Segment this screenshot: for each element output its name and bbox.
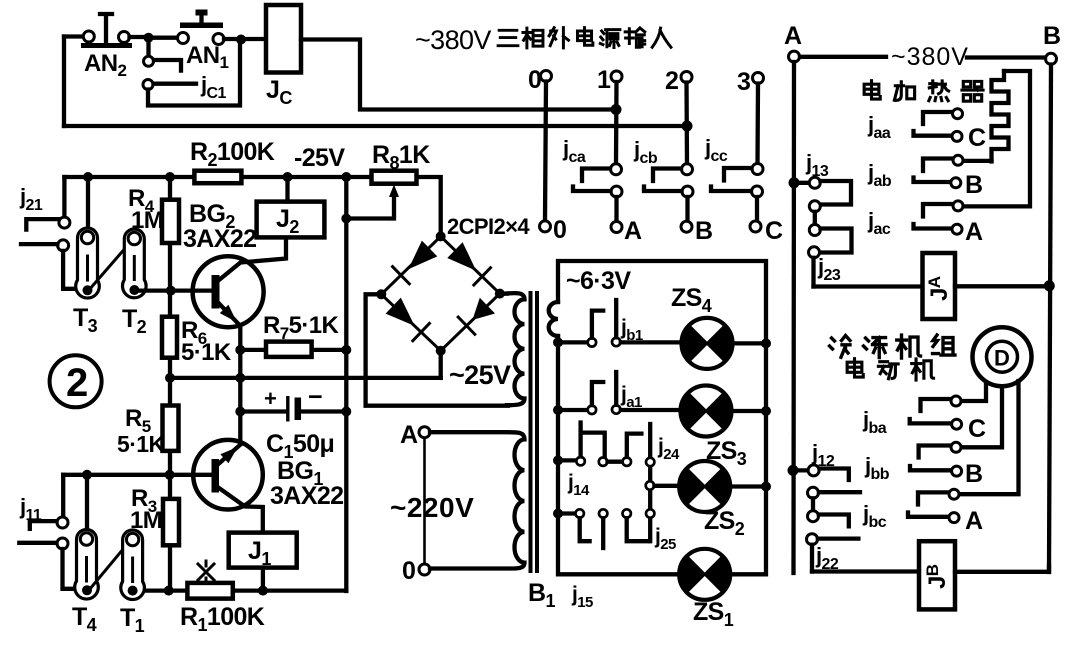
- svg-text:1M: 1M: [131, 207, 163, 234]
- contact jc1 (hold-in, parallel branch): [143, 42, 240, 106]
- wire bridge bottom node to common rail: [439, 356, 443, 378]
- node rail A on phase1: [611, 104, 622, 115]
- terminal B (right bus): [1043, 22, 1060, 64]
- svg-text:A: A: [784, 22, 802, 50]
- label ~380V: [891, 43, 969, 71]
- pushbutton AN1 (NO): [178, 10, 267, 45]
- svg-text:B: B: [695, 217, 712, 245]
- wire T4 to T1 setpoint diagonal: [90, 541, 131, 590]
- resistor R1: [187, 583, 232, 599]
- wire j22 to JB coil: [812, 569, 919, 573]
- node R7 right: [341, 345, 351, 355]
- terminal C (bottom): [750, 217, 783, 245]
- lamp ZS1: [679, 549, 730, 600]
- label C1 50u: [266, 430, 334, 462]
- label jbb: [864, 453, 890, 483]
- contact j25 (closed): [623, 509, 655, 541]
- transformer core B1: [531, 291, 538, 573]
- label jba: [862, 407, 887, 437]
- label AN2: [84, 50, 126, 80]
- contact jb1: [558, 300, 682, 347]
- label j21: [19, 184, 43, 214]
- svg-text:A: A: [624, 217, 642, 245]
- wire motor lead 2: [964, 387, 1003, 448]
- label A (heater phase): [965, 218, 983, 246]
- resistor R7: [266, 342, 312, 357]
- label ZS1: [693, 598, 734, 630]
- contact jab: [914, 155, 992, 188]
- lamp ZS3: [681, 386, 762, 437]
- svg-text:1M: 1M: [130, 507, 162, 534]
- label T1: [120, 604, 145, 636]
- contact j23: [809, 225, 852, 287]
- wire j13 to j23: [813, 212, 817, 225]
- contact ja1: [558, 372, 681, 414]
- wire bridge right node to secondary top: [505, 291, 508, 295]
- svg-text:R81K: R81K: [372, 141, 430, 173]
- label jc1: [200, 72, 226, 102]
- label B (heater phase): [965, 171, 982, 199]
- label title ~380V (three-phase external power input): [415, 25, 671, 55]
- lamp ZS4: [682, 318, 762, 369]
- wire junction to AN1: [149, 36, 178, 40]
- label j11: [19, 494, 42, 524]
- svg-text:R75·1K: R75·1K: [263, 312, 339, 343]
- node base row at T4: [82, 470, 92, 480]
- wire T3 top feed: [86, 177, 90, 231]
- node rail at -25V: [341, 172, 351, 182]
- transistor BG1: [193, 440, 263, 533]
- label R7 5.1K: [263, 312, 339, 343]
- label jbc: [862, 501, 887, 531]
- winding primary ~220V: [430, 432, 525, 568]
- terminal A (right bus): [784, 22, 802, 62]
- wire T2 to BG2 base: [139, 288, 213, 292]
- resistor R3: [163, 499, 179, 545]
- svg-text:3: 3: [737, 68, 750, 96]
- node: junction after AN2: [144, 33, 154, 43]
- wire bus A vertical: [791, 62, 796, 573]
- wire JB to bus B: [955, 566, 1049, 572]
- label ZS2: [704, 507, 745, 539]
- label A (motor phase): [965, 507, 983, 535]
- node left rail ja1: [553, 405, 563, 415]
- contact j12: [793, 465, 860, 498]
- relay coil JB: [919, 541, 955, 609]
- wire bottom row: [145, 588, 346, 592]
- wire: left vertical of start-stop loop: [62, 37, 66, 127]
- node bottom at J1: [258, 586, 268, 596]
- contact thermometer T4: [75, 530, 99, 600]
- svg-text:2: 2: [66, 361, 88, 405]
- label ~25V: [449, 360, 511, 390]
- diode D1 (top-left): [393, 241, 438, 284]
- node left rail j14: [553, 455, 563, 465]
- wire J2 top to rail: [285, 177, 289, 202]
- svg-text:~6·3V: ~6·3V: [566, 267, 631, 295]
- node emitter/R7 junction: [235, 345, 245, 355]
- node C1 left: [235, 407, 245, 417]
- label j12: [811, 440, 835, 470]
- node right rail ZS3: [761, 406, 771, 416]
- label j24: [657, 435, 680, 463]
- contact thermometer T3: [76, 228, 100, 298]
- svg-text:2: 2: [665, 67, 678, 95]
- node base row at R4 rail: [166, 286, 176, 296]
- label electric heater (dian jia re qi): [864, 81, 983, 101]
- label j25: [654, 525, 676, 553]
- diode D3 (bottom-left): [386, 298, 430, 341]
- wire R8 wiper arm: [346, 185, 399, 219]
- transistor BG2: [193, 237, 286, 327]
- node bridge bottom: [436, 346, 446, 356]
- wire R7 row: [240, 348, 346, 352]
- contact j22: [807, 511, 859, 572]
- node bridge top: [436, 231, 446, 241]
- svg-text:3AX22: 3AX22: [270, 482, 343, 510]
- wire BG2 emitter drop: [238, 325, 242, 444]
- svg-text:+: +: [264, 386, 276, 411]
- contact jca: [573, 164, 622, 222]
- label ~220V: [390, 492, 474, 523]
- wire JA to bus B: [955, 284, 1049, 288]
- wire neutral 0 vertical: [545, 82, 546, 222]
- contact j15 (open): [558, 509, 607, 548]
- svg-text:~380V: ~380V: [891, 43, 969, 71]
- node rail emitter column: [235, 373, 245, 383]
- node bridge left: [376, 289, 386, 299]
- resistor R5: [163, 406, 179, 451]
- label j23: [817, 254, 841, 284]
- terminal 0 (top): [528, 66, 552, 94]
- label AN1: [186, 42, 228, 72]
- node right rail ZS4: [761, 338, 771, 348]
- label B1: [528, 579, 555, 611]
- svg-text:1: 1: [597, 66, 611, 94]
- lamp circuit box rails: [558, 261, 766, 574]
- svg-text:−: −: [308, 383, 322, 411]
- label R5 5.1K: [117, 405, 165, 457]
- contact j13: [794, 177, 851, 212]
- heater element (meander): [963, 71, 1030, 206]
- wire left column rail (R4/R6/R5/R3): [168, 177, 172, 591]
- pushbutton AN2 (NC): [64, 14, 143, 48]
- wire rail B (bottom of loop to phase 2): [64, 124, 687, 128]
- contact jcc: [711, 164, 763, 222]
- wire -25V top rail: [64, 175, 416, 179]
- svg-text:-25V: -25V: [294, 144, 345, 172]
- contact jbb: [910, 442, 962, 476]
- label BG1 3AX22: [270, 457, 343, 510]
- label jaa: [867, 112, 891, 142]
- wire bus B vertical: [1049, 65, 1051, 573]
- label 2CP12x4: [447, 214, 530, 239]
- node rail at T3 branch: [83, 172, 93, 182]
- bridge rectifier 2CP12x4 frame: [381, 236, 500, 350]
- node on bus A at j12: [788, 465, 799, 476]
- label jca: [562, 136, 586, 166]
- node left rail jb1: [553, 337, 563, 347]
- svg-text:B: B: [965, 460, 982, 488]
- label ~6.3V: [566, 267, 631, 295]
- label R6 5.1K: [181, 317, 232, 366]
- svg-text:A: A: [965, 507, 983, 535]
- wire -25V vertical rail: [344, 177, 348, 591]
- svg-text:A: A: [965, 218, 983, 246]
- svg-text:C: C: [968, 124, 986, 152]
- wire A to B with ~380V label: [800, 55, 1045, 60]
- wire motor lead 3: [961, 381, 1019, 494]
- relay coil Jc: [266, 5, 301, 73]
- wire j23 to JA coil: [814, 284, 923, 288]
- svg-text:0: 0: [402, 557, 415, 585]
- terminal 1 (top): [597, 66, 622, 94]
- relay coil J2: [257, 202, 325, 238]
- node left rail j15: [553, 509, 563, 519]
- wire motor lead 1: [964, 383, 987, 402]
- label R2 100K: [190, 138, 275, 170]
- wire T3 to T2 setpoint diagonal: [89, 240, 132, 290]
- label jb1: [620, 316, 643, 344]
- node on bus B at JA: [1044, 280, 1055, 291]
- node rail R5 top: [165, 373, 175, 383]
- svg-text:~25V: ~25V: [449, 360, 511, 390]
- svg-text:A: A: [400, 421, 418, 449]
- symbol reference mark: [198, 561, 214, 583]
- resistor R4: [162, 200, 179, 243]
- wire rail to bridge top: [417, 177, 441, 232]
- svg-text:3AX22: 3AX22: [183, 225, 256, 253]
- label T4: [72, 603, 97, 635]
- svg-text:B: B: [965, 171, 982, 199]
- label ja1: [620, 383, 642, 411]
- node bottom at T1 rail: [164, 586, 174, 596]
- contact jba: [910, 396, 962, 429]
- relay coil JA: [923, 253, 956, 319]
- label BG2 3AX22: [183, 200, 256, 253]
- node ZS2 feed: [646, 481, 680, 489]
- label R3 1M: [130, 485, 162, 534]
- badge circled 2: [50, 355, 102, 407]
- svg-text:~220V: ~220V: [390, 492, 474, 523]
- terminal 0 (bottom): [540, 216, 567, 244]
- node bridge right: [495, 289, 505, 299]
- wire bridge left node loop to secondary bottom: [366, 294, 508, 405]
- diode D2 (top-right): [447, 242, 490, 285]
- lamp ZS2: [679, 461, 761, 512]
- label T3: [73, 304, 98, 336]
- label R1 100K: [180, 603, 265, 635]
- svg-text:2CPI2×4: 2CPI2×4: [447, 214, 530, 239]
- svg-text:B: B: [1043, 22, 1060, 50]
- contact thermometer T2: [123, 229, 147, 298]
- node on bus A at j13: [789, 177, 800, 188]
- contact jbc: [908, 489, 959, 522]
- label refrigeration unit (leng dong ji zu): [830, 335, 956, 358]
- label -25V: [294, 144, 345, 172]
- wire phase3 vertical: [755, 84, 760, 164]
- node wiper junction: [341, 214, 351, 224]
- node rail at R4: [165, 172, 175, 182]
- label R4 1M: [128, 185, 163, 234]
- label C (motor phase): [968, 415, 986, 443]
- wire common rail to rectifier (y=378): [170, 376, 441, 380]
- terminal A (bottom): [611, 217, 642, 245]
- resistor R6: [162, 317, 177, 358]
- wire Jc output to rail A: [301, 40, 616, 110]
- label ZS4: [671, 284, 712, 316]
- label jcc: [704, 135, 728, 165]
- node C1 right: [341, 407, 351, 417]
- label jab: [867, 160, 892, 190]
- resistor R8 (rheostat): [372, 171, 417, 184]
- contact j21: [21, 217, 76, 289]
- wire J1 bottom drop: [261, 568, 265, 591]
- resistor R2: [194, 171, 241, 184]
- svg-text:5·1K: 5·1K: [181, 339, 232, 366]
- terminal 3 (top): [737, 68, 764, 96]
- terminal 0 (mains): [402, 557, 430, 585]
- label B (motor phase): [965, 460, 982, 488]
- wire phase2 vertical: [684, 83, 689, 164]
- motor D: [973, 327, 1032, 386]
- label R8 1K: [372, 141, 430, 173]
- svg-text:C: C: [765, 217, 783, 245]
- node base row at rail: [165, 470, 175, 480]
- label j14: [567, 471, 590, 499]
- label T2: [122, 305, 147, 337]
- diode D4 (bottom-right): [458, 298, 495, 335]
- svg-text:R2100K: R2100K: [190, 138, 275, 170]
- node: junction before Jc: [236, 35, 246, 45]
- wire mains pair: [423, 438, 426, 564]
- svg-text:0: 0: [553, 216, 566, 244]
- svg-text:~380V: ~380V: [415, 25, 491, 55]
- label j15: [571, 583, 593, 611]
- terminal 2 (top): [665, 67, 692, 95]
- node rail at J2: [283, 172, 293, 182]
- svg-text:R1100K: R1100K: [180, 603, 265, 635]
- terminal A (mains): [400, 421, 430, 449]
- svg-text:D: D: [994, 346, 1009, 371]
- contact thermometer T1: [121, 530, 145, 600]
- wire j11 drop: [61, 475, 65, 517]
- label j13: [805, 150, 829, 180]
- terminal B (bottom): [681, 217, 712, 245]
- capacitor C1 (electrolytic): [264, 383, 322, 422]
- wire T4 top feed: [85, 475, 89, 533]
- wire phase1 vertical: [614, 82, 619, 164]
- node right rail ZS2: [761, 482, 771, 492]
- wire j21 drop: [62, 177, 66, 217]
- svg-text:5·1K: 5·1K: [117, 431, 165, 457]
- svg-text:C: C: [968, 415, 986, 443]
- contact j24 (open): [623, 424, 655, 541]
- contact jac: [914, 201, 964, 234]
- label motor (dian dong ji): [847, 359, 933, 380]
- label C (heater phase): [968, 124, 986, 152]
- contact jaa: [914, 109, 963, 142]
- wire j12 to j22: [811, 498, 815, 510]
- label Jc: [266, 76, 292, 108]
- label jac: [867, 208, 891, 238]
- relay coil J1: [229, 533, 297, 569]
- wire BG1 base row: [63, 473, 212, 477]
- contact j11: [19, 517, 76, 589]
- label ZS3: [706, 437, 747, 469]
- node rail B on phase2: [682, 121, 693, 132]
- label jcb: [633, 137, 658, 167]
- label j22: [815, 543, 839, 573]
- winding ~6.3V on left rail: [549, 302, 558, 336]
- capacitor C1 row: [240, 409, 346, 413]
- svg-text:0: 0: [528, 66, 541, 94]
- winding secondary ~25V: [505, 293, 525, 405]
- contact jcb: [644, 164, 693, 221]
- contact j14 (closed): [558, 423, 622, 466]
